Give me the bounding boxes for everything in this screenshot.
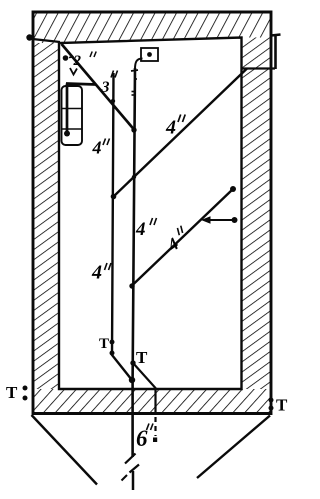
break symbol on 6in drain xyxy=(125,454,136,464)
small tick at break xyxy=(122,475,128,481)
wire: fixture connector to 3in diagonal xyxy=(66,84,96,85)
node: left leader joins stack xyxy=(129,377,135,383)
node: fixture pipe bottom dot xyxy=(64,131,70,137)
node: bottom-right leader dots xyxy=(269,398,274,403)
label 6in xyxy=(136,426,148,451)
svg-text:2: 2 xyxy=(73,53,82,69)
trap T at stack branch xyxy=(136,348,148,367)
wall ring (hatched building wall section) xyxy=(33,12,271,43)
dashed continuation below wall xyxy=(154,417,156,436)
label 4in (middle, rotated along pipe) xyxy=(162,226,192,256)
svg-text:4: 4 xyxy=(92,138,102,158)
svg-text:T: T xyxy=(6,383,18,402)
node: 2in connection dot xyxy=(63,55,69,61)
label 4in (left leader lower) xyxy=(91,262,102,284)
fixture internal drop pipe xyxy=(66,84,69,133)
left leader vertical xyxy=(112,73,132,380)
node: top diagonal meets left leader xyxy=(111,194,117,200)
6in drain continues xyxy=(132,471,135,490)
node: left leader trap dots xyxy=(110,340,115,345)
stack top joint tick xyxy=(131,70,138,71)
wire through right wall (top) xyxy=(242,67,275,69)
wall outer outline xyxy=(33,12,271,414)
node: middle diagonal top end at wall xyxy=(230,186,236,192)
pipe 3in diagonal from corner to stack xyxy=(62,44,135,130)
wire: top-left inlet through wall xyxy=(28,39,60,43)
label 4in (top diagonal) xyxy=(165,117,176,139)
middle 4in diagonal xyxy=(132,189,234,286)
outside leader bracket (top right) xyxy=(274,35,277,69)
label 3in xyxy=(101,79,110,96)
label 4in (middle, upright) xyxy=(135,219,146,240)
node: top diagonal crosses stack xyxy=(132,175,136,179)
house drain from bottom-right corner xyxy=(197,416,270,479)
branch pipe to second wall crossing xyxy=(133,363,156,415)
arrowhead pointing down to fixture pipe xyxy=(70,68,77,75)
node: top-left leader dot xyxy=(26,34,32,40)
vent box on roof (square with dot) xyxy=(141,48,158,61)
stack top curve into box xyxy=(135,59,143,70)
node: bottom-left leader dots xyxy=(23,386,28,391)
main stack vertical xyxy=(133,68,135,457)
node: 3in joins stack xyxy=(131,127,136,132)
wall stub with arrow into diagonal xyxy=(209,219,234,221)
label 4in (left leader upper) xyxy=(92,138,102,158)
node: stub right dot xyxy=(232,217,238,223)
svg-text:4: 4 xyxy=(91,262,102,284)
trap T bottom left outside xyxy=(6,383,18,402)
node: dashed pipe end xyxy=(153,438,157,443)
fixture (sectioned tank at upper left) xyxy=(62,86,83,145)
trap T at left leader xyxy=(99,336,109,352)
svg-text:4: 4 xyxy=(165,117,176,139)
svg-text:3: 3 xyxy=(101,79,110,96)
wall inner outline xyxy=(59,38,242,390)
top 4in diagonal branch to right wall xyxy=(113,69,247,198)
trap T bottom right outside xyxy=(276,396,288,415)
house drain from bottom-left corner xyxy=(32,415,98,485)
svg-text:T: T xyxy=(99,336,109,352)
node: 3in diagonal crosses left leader xyxy=(111,99,115,103)
node: branch from stack xyxy=(130,360,135,365)
svg-text:4: 4 xyxy=(135,219,146,240)
svg-text:T: T xyxy=(136,348,148,367)
svg-text:T: T xyxy=(276,396,288,415)
label 2in with leader dash xyxy=(69,56,74,59)
node: middle diagonal meets stack xyxy=(129,283,134,288)
